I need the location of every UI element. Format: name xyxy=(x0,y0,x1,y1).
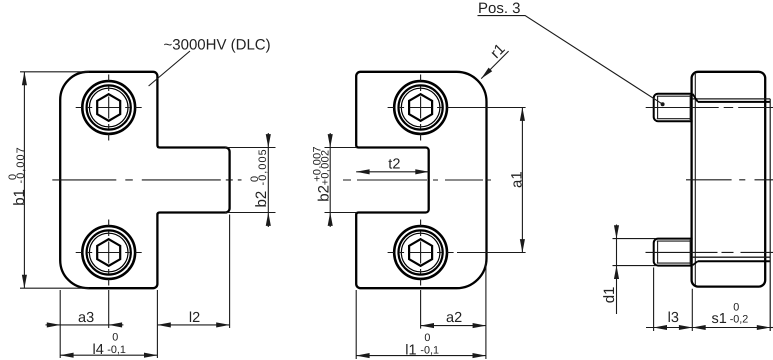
screw bottom-middle xyxy=(388,220,454,286)
svg-text:s1: s1 xyxy=(712,311,727,327)
dimension l2 xyxy=(157,215,229,329)
part 2 centerline xyxy=(343,179,493,181)
plate inner edge line xyxy=(694,74,696,285)
dimension a2 xyxy=(421,290,486,329)
plate mid centerline xyxy=(686,179,773,181)
svg-text:0: 0 xyxy=(424,332,430,344)
svg-text:b2: b2 xyxy=(315,185,332,202)
dimension t2 xyxy=(356,157,429,173)
svg-text:d1: d1 xyxy=(601,287,618,304)
bottom pin centerline xyxy=(646,251,773,253)
part 2 outline (middle view, block with slot) xyxy=(356,72,486,288)
svg-text:0: 0 xyxy=(112,331,118,343)
label r1 with leader arrow xyxy=(481,40,508,78)
screw top-middle xyxy=(388,75,454,141)
svg-text:-0,007: -0,007 xyxy=(15,146,27,183)
svg-text:l2: l2 xyxy=(189,310,200,326)
dimension a1 xyxy=(449,108,526,253)
svg-text:a3: a3 xyxy=(78,310,94,326)
dimension b1 xyxy=(7,72,89,288)
svg-text:b1: b1 xyxy=(11,189,28,206)
dimension l4 xyxy=(60,331,157,358)
svg-text:b2: b2 xyxy=(253,191,270,208)
part 1 outline (left view, block with tongue) xyxy=(60,72,229,288)
plate upper counterbore edge lines xyxy=(692,94,770,102)
svg-text:-0,1: -0,1 xyxy=(107,344,126,356)
svg-text:a1: a1 xyxy=(508,171,525,188)
label ~3000HV (DLC) with leader xyxy=(149,37,271,86)
screw bottom-left xyxy=(76,220,142,286)
dimension l1 xyxy=(356,262,486,359)
svg-text:l3: l3 xyxy=(668,310,679,326)
svg-text:~3000HV (DLC): ~3000HV (DLC) xyxy=(164,37,271,54)
part 3 plate outline (side view) xyxy=(692,72,766,287)
bottom pin (screw side view) xyxy=(654,239,693,266)
svg-text:t2: t2 xyxy=(388,157,400,173)
svg-text:Pos. 3: Pos. 3 xyxy=(478,0,521,17)
svg-text:a2: a2 xyxy=(446,310,462,326)
dimension b2 (middle view) xyxy=(312,133,357,227)
dimension a3 xyxy=(46,290,158,358)
plate lower counterbore edge lines xyxy=(692,257,770,265)
label Pos. 3 with leader and dot xyxy=(478,0,665,106)
svg-text:0: 0 xyxy=(733,301,739,313)
top pin (screw side view) xyxy=(654,94,693,122)
svg-text:+0,002: +0,002 xyxy=(320,150,332,186)
rear part edge line xyxy=(769,99,771,331)
dimension s1 xyxy=(692,301,773,327)
dimension d1 xyxy=(601,225,656,315)
svg-text:l1: l1 xyxy=(405,342,416,358)
svg-text:-0,2: -0,2 xyxy=(730,314,749,326)
screw top-left xyxy=(76,75,142,141)
svg-text:-0,1: -0,1 xyxy=(420,345,439,357)
top pin centerline xyxy=(646,107,773,109)
svg-text:l4: l4 xyxy=(93,342,104,358)
svg-text:-0,005: -0,005 xyxy=(257,148,269,185)
svg-text:r1: r1 xyxy=(487,40,508,61)
part 1 centerline xyxy=(52,179,241,181)
dimension l3 xyxy=(646,268,692,332)
dimension b2 (left view) xyxy=(225,133,276,227)
